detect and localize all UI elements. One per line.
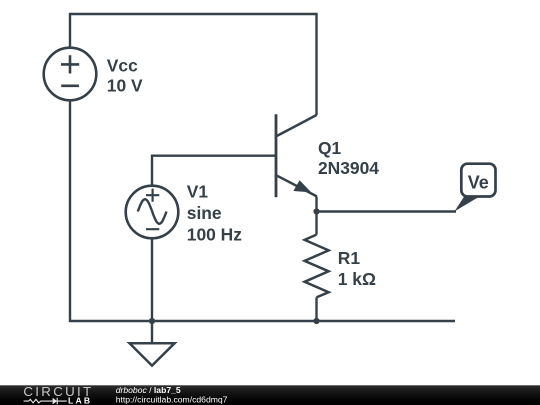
svg-text:1 kΩ: 1 kΩ [338, 269, 376, 289]
svg-text:Vcc: Vcc [107, 56, 138, 76]
svg-text:Q1: Q1 [318, 138, 342, 158]
svg-text:LAB: LAB [68, 395, 92, 405]
svg-text:Ve: Ve [468, 173, 489, 193]
svg-text:sine: sine [187, 203, 222, 223]
svg-text:2N3904: 2N3904 [318, 158, 379, 178]
svg-text:10 V: 10 V [107, 75, 143, 95]
svg-text:100 Hz: 100 Hz [187, 225, 242, 245]
svg-text:http://circuitlab.com/cd6dmq7: http://circuitlab.com/cd6dmq7 [116, 394, 228, 404]
svg-text:V1: V1 [187, 182, 209, 202]
svg-text:R1: R1 [338, 248, 361, 268]
